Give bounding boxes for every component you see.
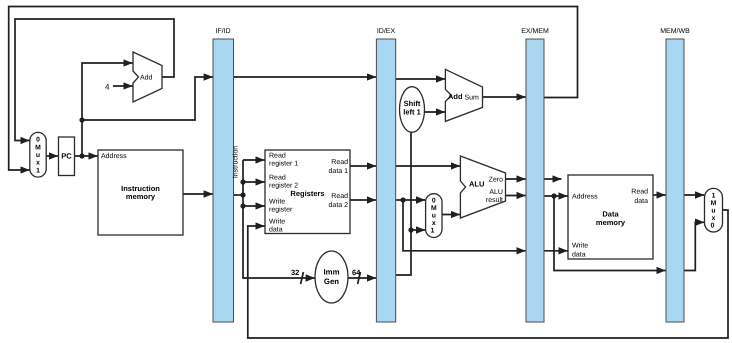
svg-text:IF/ID: IF/ID — [215, 27, 230, 35]
svg-text:Sum: Sum — [465, 95, 480, 102]
svg-text:register 1: register 1 — [269, 160, 298, 168]
svg-text:M: M — [711, 200, 717, 207]
svg-text:Write: Write — [269, 218, 285, 226]
svg-text:Registers: Registers — [290, 189, 324, 198]
svg-text:x: x — [36, 160, 40, 167]
svg-text:ALU: ALU — [489, 189, 503, 196]
svg-text:memory: memory — [596, 218, 626, 227]
svg-text:data 1: data 1 — [329, 167, 349, 175]
svg-text:EX/MEM: EX/MEM — [521, 27, 549, 35]
svg-text:PC: PC — [61, 152, 72, 161]
svg-text:Read: Read — [631, 188, 648, 196]
svg-text:memory: memory — [126, 192, 156, 201]
svg-text:4: 4 — [105, 83, 110, 92]
svg-text:1: 1 — [431, 228, 435, 235]
svg-text:32: 32 — [291, 268, 299, 277]
svg-text:Imm: Imm — [323, 268, 339, 277]
svg-text:1: 1 — [36, 168, 40, 175]
svg-text:1: 1 — [712, 193, 716, 200]
svg-text:register: register — [269, 206, 293, 214]
svg-text:x: x — [432, 220, 436, 227]
svg-text:ID/EX: ID/EX — [377, 27, 396, 35]
svg-text:u: u — [432, 213, 436, 220]
svg-text:Instruction: Instruction — [232, 146, 240, 178]
svg-text:0: 0 — [711, 223, 715, 230]
svg-text:u: u — [36, 152, 40, 159]
svg-text:M: M — [35, 145, 41, 152]
svg-text:M: M — [431, 205, 437, 212]
svg-text:data: data — [634, 197, 648, 205]
svg-text:Read: Read — [331, 158, 348, 166]
svg-text:x: x — [712, 215, 716, 222]
svg-text:data: data — [572, 251, 586, 259]
svg-text:Read: Read — [269, 174, 286, 182]
svg-text:Address: Address — [572, 193, 598, 201]
svg-text:Add: Add — [448, 92, 463, 101]
svg-text:0: 0 — [36, 137, 40, 144]
svg-text:Address: Address — [101, 152, 127, 160]
svg-text:MEM/WB: MEM/WB — [660, 27, 690, 35]
svg-text:u: u — [711, 208, 715, 215]
svg-text:Write: Write — [572, 242, 588, 250]
svg-text:Zero: Zero — [489, 177, 504, 184]
svg-text:left 1: left 1 — [403, 108, 421, 117]
svg-text:Read: Read — [331, 192, 348, 200]
svg-text:result: result — [486, 196, 503, 204]
svg-text:Read: Read — [269, 152, 286, 160]
svg-text:Gen: Gen — [324, 277, 339, 286]
svg-text:data 2: data 2 — [329, 201, 349, 209]
svg-text:Add: Add — [140, 74, 153, 82]
svg-text:data: data — [269, 226, 283, 234]
svg-text:ALU: ALU — [469, 180, 484, 189]
svg-text:0: 0 — [432, 198, 436, 205]
svg-text:Write: Write — [269, 198, 285, 206]
